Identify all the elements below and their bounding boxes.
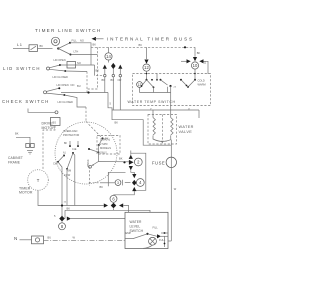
wire cluster to water level switch [123, 206, 128, 213]
svg-text:FILL: FILL [72, 39, 78, 43]
wire AGIT contact right [71, 54, 98, 56]
wire lid switch NC right then dashed down [65, 71, 87, 93]
svg-text:BS: BS [53, 120, 57, 124]
timer line switch terminal circle [51, 37, 59, 45]
svg-text:BK: BK [96, 69, 100, 73]
circled terminal 12 [143, 47, 150, 79]
wires from 14 legs down [105, 77, 121, 110]
svg-text:LEVEL: LEVEL [130, 225, 141, 229]
svg-text:T: T [37, 178, 40, 183]
svg-text:BK: BK [139, 43, 143, 47]
svg-text:VALVE: VALVE [179, 130, 193, 134]
svg-text:NO: NO [71, 83, 75, 87]
svg-text:BK: BK [64, 143, 68, 145]
svg-text:EMP: EMP [126, 231, 132, 235]
svg-text:BK: BK [197, 51, 201, 55]
wire timer motor to junction [38, 190, 104, 210]
svg-text:LID OPEN: LID OPEN [57, 83, 69, 87]
svg-text:PROTECTOR: PROTECTOR [63, 133, 79, 137]
check switch [44, 87, 66, 96]
svg-text:BU: BU [48, 236, 52, 240]
water valve solenoid coils [153, 110, 173, 144]
terminal 3 [89, 180, 131, 189]
wire L1 lead [13, 48, 29, 50]
label WATER VALVE [179, 125, 194, 134]
motor run wires down [58, 154, 75, 219]
timer terminal box outline [108, 153, 146, 190]
svg-text:BK: BK [119, 157, 123, 161]
terminal 8 cluster [54, 214, 71, 230]
water level switch box [125, 212, 168, 248]
valve feed line [112, 107, 199, 118]
svg-text:BK: BK [40, 44, 44, 48]
circled terminal 10 with side arrows [181, 46, 208, 79]
svg-text:NO: NO [80, 39, 84, 43]
label CABINET FRAME [8, 156, 23, 164]
svg-text:BK: BK [115, 121, 119, 125]
drive motor circle [55, 122, 117, 184]
wire FILL contact to buss corner [70, 43, 91, 65]
svg-text:OVERLOAD: OVERLOAD [63, 129, 78, 133]
svg-text:LTH: LTH [74, 50, 79, 54]
water temp switch output wires [140, 86, 172, 110]
svg-text:BU: BU [111, 78, 115, 82]
svg-text:WATER TEMP SWITCH: WATER TEMP SWITCH [128, 100, 176, 104]
switch arm down to AGIT contact [58, 49, 78, 56]
svg-text:TIMER LINE SWITCH: TIMER LINE SWITCH [35, 28, 101, 33]
svg-text:BK: BK [93, 43, 97, 47]
internal timer buss dashed line [91, 43, 195, 47]
wire check switch NC contact down [64, 95, 86, 122]
parallel line below [65, 210, 150, 218]
line filter block [29, 45, 38, 52]
svg-text:1 SPD &: 1 SPD & [100, 138, 110, 142]
svg-text:14: 14 [106, 54, 111, 59]
motor run line to terminal 2 [98, 157, 129, 164]
svg-text:SWITCH: SWITCH [130, 229, 144, 233]
svg-text:INTERNAL TIMER BUSS: INTERNAL TIMER BUSS [107, 37, 194, 42]
svg-text:6M: 6M [68, 169, 72, 173]
svg-text:CHECK SWITCH: CHECK SWITCH [2, 99, 50, 104]
svg-text:LID CLOSED: LID CLOSED [53, 75, 69, 79]
switch arm up to FILL contact [58, 39, 84, 49]
svg-text:FULL: FULL [159, 238, 166, 242]
svg-text:FILL: FILL [153, 226, 159, 230]
svg-text:CW: CW [53, 162, 58, 166]
svg-text:V: V [188, 107, 190, 111]
circled terminal 13 [137, 82, 143, 93]
dashed timer box left edge [86, 47, 98, 89]
motor protector contacts and run takeoff [88, 69, 112, 162]
wire fuse down to water level switch [171, 168, 177, 242]
svg-text:BU: BU [77, 84, 81, 88]
water valve dashed box [148, 115, 177, 145]
svg-text:LID CLOSED: LID CLOSED [58, 100, 74, 104]
svg-text:3: 3 [117, 181, 119, 185]
svg-text:MOTOR: MOTOR [19, 191, 33, 195]
svg-text:LID OPEN: LID OPEN [54, 58, 66, 62]
terminal 2 with arrow [129, 158, 142, 166]
water temp switch dashed box [133, 74, 211, 106]
dashed stub right of motor bottom [89, 167, 91, 187]
timer motor [28, 170, 49, 191]
svg-text:OR: OR [118, 78, 122, 82]
svg-text:ONLY: ONLY [100, 150, 107, 154]
dashed wire to timer motor [43, 126, 55, 170]
svg-text:LID SWITCH: LID SWITCH [3, 66, 41, 71]
svg-text:12: 12 [144, 65, 149, 70]
svg-text:MODELS: MODELS [100, 146, 111, 150]
svg-text:WATER: WATER [130, 220, 143, 224]
fuse [152, 157, 177, 167]
svg-text:MOTOR: MOTOR [42, 126, 56, 130]
svg-text:2 SPD: 2 SPD [100, 142, 108, 146]
wire fuse line into box [168, 240, 171, 242]
svg-text:L1: L1 [17, 42, 23, 47]
terminal 6 cluster [104, 195, 123, 211]
terminal 4 with arrows [114, 174, 145, 195]
wire filter to switch, label BK [38, 44, 53, 49]
svg-text:BK: BK [67, 206, 71, 210]
lid switch annotations [53, 58, 81, 79]
check switch annotations [57, 83, 81, 104]
circled terminal 14 [105, 47, 112, 60]
svg-text:BK: BK [15, 132, 19, 136]
water temp switch contacts [141, 73, 206, 93]
water level switch contacts [125, 226, 168, 249]
motor winding labels [53, 160, 90, 178]
branch stack at terminal 2 [129, 151, 135, 175]
svg-text:FRAME: FRAME [8, 160, 21, 164]
svg-text:FUSE: FUSE [152, 161, 165, 166]
svg-text:DRIVE: DRIVE [42, 122, 54, 126]
label DRIVE MOTOR [42, 122, 56, 131]
label TIMER MOTOR [19, 186, 33, 194]
wire lid switch NO to buss vertical [60, 64, 95, 66]
dash-dot neutral wire [44, 236, 126, 241]
stub terminal with BS tag [28, 109, 60, 126]
svg-text:Y: Y [150, 107, 152, 111]
wire bypass to fuse [112, 110, 158, 145]
svg-text:BK: BK [100, 185, 104, 189]
svg-text:COLD: COLD [198, 79, 205, 83]
motor internal contacts [57, 141, 79, 170]
label OVERLOAD PROTECTOR [63, 129, 79, 137]
cabinet frame ground [15, 132, 34, 155]
label: INTERNAL TIMER BUSS with arrow [92, 37, 194, 42]
node N with line filter [14, 236, 44, 244]
connector box near lid switch [67, 62, 76, 69]
wire valve to fuse [170, 140, 172, 158]
svg-text:WATER: WATER [179, 125, 194, 129]
speed note dashed box [97, 136, 120, 155]
junction dot at switch common [57, 47, 59, 49]
svg-text:C1E: C1E [72, 149, 77, 151]
wire check switch output to water temp switch [61, 91, 112, 110]
wire to water level switch box [71, 218, 125, 220]
svg-text:N: N [14, 236, 18, 241]
label WATER LEVEL SWITCH [130, 220, 144, 233]
svg-text:10: 10 [193, 63, 198, 68]
svg-text:WARM: WARM [198, 83, 206, 87]
start winding terminal [86, 122, 109, 169]
svg-text:CCW: CCW [64, 173, 71, 177]
terminal circles and wire color labels [102, 74, 122, 82]
svg-text:NO: NO [77, 61, 81, 65]
lid switch [47, 64, 67, 72]
triangle contacts under 14 [103, 60, 123, 74]
